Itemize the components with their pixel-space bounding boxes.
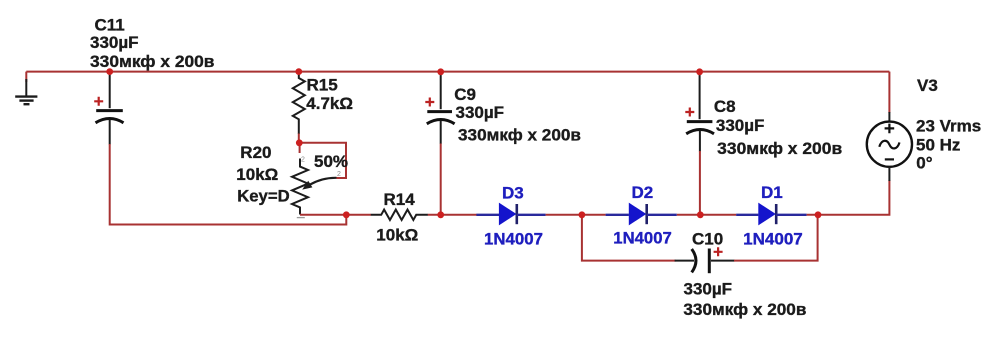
node junction bottom C10 right (815, 211, 822, 218)
svg-text:R20: R20 (240, 143, 271, 162)
diode D2 (606, 203, 677, 226)
svg-text:330мкф x 200в: 330мкф x 200в (458, 126, 581, 145)
capacitor C11 (96, 73, 124, 145)
node junction top R15 (295, 68, 302, 75)
node junction bottom C9 (437, 211, 444, 218)
svg-text:D1: D1 (761, 183, 783, 202)
wire pot top stub (299, 143, 301, 153)
svg-text:330µF: 330µF (90, 33, 139, 52)
resistor R15 (293, 73, 305, 134)
R20 wiper arrow (302, 178, 336, 190)
C9 plus sign (425, 98, 434, 107)
svg-text:1N4007: 1N4007 (613, 229, 672, 248)
svg-text:0°: 0° (916, 153, 932, 172)
svg-text:330мкф x 200в: 330мкф x 200в (90, 52, 215, 71)
D2 labels (613, 183, 672, 248)
svg-text:50%: 50% (314, 152, 348, 171)
capacitor C9 (427, 73, 455, 144)
node junction top C9 (437, 68, 444, 75)
wire ground stub (25, 72, 27, 82)
svg-text:C10: C10 (692, 230, 723, 249)
C9 value labels (454, 85, 581, 144)
svg-text:23 Vrms: 23 Vrms (916, 117, 981, 136)
svg-text:50 Hz: 50 Hz (916, 136, 960, 155)
wire R14 to D3 (428, 214, 477, 216)
C10 plus sign (714, 247, 723, 256)
R20 pin mark bottom (297, 217, 305, 219)
wire D3 to D2 (546, 214, 606, 216)
svg-text:C8: C8 (714, 97, 736, 116)
svg-text:10kΩ: 10kΩ (376, 226, 418, 245)
svg-text:Key=D: Key=D (237, 187, 290, 206)
wire R15 to pot (298, 134, 300, 143)
R20 labels (236, 143, 289, 206)
svg-text:330µF: 330µF (716, 116, 765, 135)
svg-text:2: 2 (337, 171, 341, 178)
ground (15, 79, 37, 104)
V3 labels (916, 76, 981, 172)
node junction bottom loop (343, 211, 350, 218)
capacitor C10 (675, 249, 735, 274)
node junction top C11 (106, 68, 113, 75)
wire D2 to D1 (677, 214, 737, 216)
wire V3 top drop (888, 72, 890, 113)
R15 labels (306, 75, 353, 113)
svg-text:330мкф x 200в: 330мкф x 200в (683, 300, 806, 319)
wire D1 to V3 corner (807, 180, 890, 215)
diode D1 (736, 203, 806, 226)
D3 labels (484, 183, 543, 248)
svg-text:R15: R15 (307, 75, 338, 94)
svg-text:D3: D3 (502, 183, 524, 202)
svg-text:V3: V3 (917, 76, 938, 95)
wire C11 to bottom loop (110, 144, 347, 225)
svg-text:D2: D2 (632, 183, 654, 202)
svg-text:2: 2 (301, 157, 305, 164)
svg-text:C9: C9 (454, 85, 476, 104)
R14 labels (376, 190, 418, 245)
wire C10 branch right (734, 215, 818, 261)
svg-text:330µF: 330µF (456, 103, 505, 122)
node junction bottom C8 (697, 211, 704, 218)
svg-text:1N4007: 1N4007 (484, 229, 543, 248)
node junction bottom C10 left (579, 211, 586, 218)
wire C9 to bottom bus (440, 144, 442, 215)
svg-text:4.7kΩ: 4.7kΩ (306, 94, 353, 113)
C11 plus sign (94, 97, 103, 106)
potentiometer R20 (292, 159, 308, 215)
svg-text:10kΩ: 10kΩ (236, 165, 278, 184)
wire top bus (26, 71, 889, 73)
C8 value labels (714, 97, 842, 158)
C10 value labels (683, 230, 806, 320)
diode D3 (476, 203, 545, 226)
D1 labels (743, 183, 803, 248)
node junction top C8 (696, 68, 703, 75)
wire C8 to bottom bus (699, 151, 701, 215)
C11 value labels (90, 15, 215, 71)
resistor R14 (371, 210, 428, 220)
svg-text:330мкф x 200в: 330мкф x 200в (717, 139, 842, 158)
C8 plus sign (685, 108, 694, 117)
capacitor C8 (686, 73, 714, 152)
node junction pot top (296, 139, 303, 146)
svg-text:R14: R14 (384, 190, 416, 209)
wire bottom bus left (300, 214, 371, 216)
svg-text:C11: C11 (95, 15, 125, 34)
svg-text:330µF: 330µF (684, 279, 733, 298)
wire wiper loop (299, 143, 346, 178)
svg-text:1N4007: 1N4007 (743, 229, 803, 248)
ac source V3 (867, 112, 912, 181)
wire C10 branch left (582, 215, 676, 261)
